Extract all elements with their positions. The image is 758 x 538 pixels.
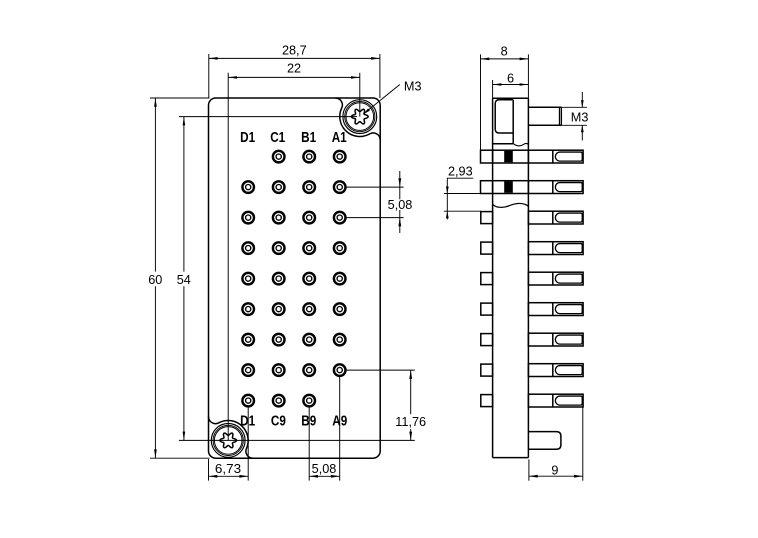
svg-text:B9: B9 — [301, 413, 316, 429]
svg-text:11,76: 11,76 — [395, 415, 426, 429]
svg-text:D1: D1 — [240, 413, 255, 429]
svg-text:M3: M3 — [404, 79, 422, 93]
svg-text:A1: A1 — [332, 130, 347, 146]
svg-text:8: 8 — [501, 45, 508, 59]
svg-text:D1: D1 — [240, 130, 255, 146]
svg-text:60: 60 — [148, 273, 162, 287]
svg-text:54: 54 — [177, 273, 191, 287]
svg-text:22: 22 — [287, 62, 301, 76]
svg-text:6: 6 — [507, 71, 514, 85]
svg-text:5,08: 5,08 — [388, 198, 413, 212]
svg-text:C1: C1 — [270, 130, 285, 146]
svg-text:9: 9 — [551, 463, 558, 477]
svg-text:5,08: 5,08 — [312, 462, 337, 476]
svg-text:2,93: 2,93 — [448, 165, 473, 179]
svg-text:B1: B1 — [301, 130, 316, 146]
svg-text:C9: C9 — [271, 413, 286, 429]
svg-text:6,73: 6,73 — [215, 462, 241, 476]
svg-text:A9: A9 — [332, 413, 347, 429]
svg-text:M3: M3 — [571, 111, 589, 125]
svg-text:28,7: 28,7 — [282, 43, 307, 57]
